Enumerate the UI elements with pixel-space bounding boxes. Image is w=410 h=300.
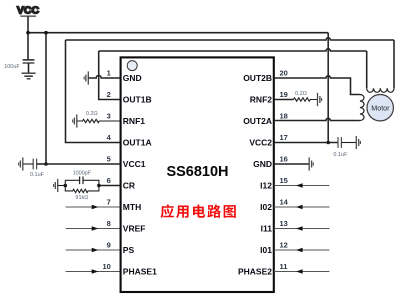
svg-text:3: 3 [107,112,111,121]
svg-text:11: 11 [280,262,288,271]
wire top VCC rail y=32.7 from VCC stem to right corner x=328.2 [28,32,328,34]
capacitor C3 1000pF top branch of CR network [65,177,99,186]
svg-text:17: 17 [280,133,288,142]
svg-text:20: 20 [280,69,288,78]
ground below C1 [22,73,36,79]
svg-text:15: 15 [280,176,288,185]
junction VCC rail at pin17 VCC2 [326,141,330,145]
inductor L1 motor left winding [360,95,364,121]
red caption: application circuit diagram (CJK glyph outlines) [161,204,236,218]
pin1 indicator circle [127,61,137,71]
ground at pin3 RNF1 circuit (pointing left) [73,114,77,127]
wire vertical x=394 from rail2 down to motor winding L2 right end [393,40,395,88]
ground at C4 (pointing right) [356,136,360,149]
wire with arrow into pin15 I12 [274,183,330,188]
wire VCC stem down from VCC bar to top rail [27,16,29,33]
wire pin20 OUT2B to motor winding L1 top, hop over VCC vertical rail [274,76,360,95]
wire vertical x=98.7 rail3 corner down to pin2 OUT1B row [99,51,120,100]
svg-text:OUT1B: OUT1B [123,95,152,105]
svg-text:Motor: Motor [371,103,390,112]
wire VCC vertical rail x=328.2 from top rail corner down to VCC2 row [327,33,329,143]
wire vertical x=65.5 rail2 corner down to pin4 OUT1A row [66,40,120,143]
resistor R3 0.2 ohm at pin19 [294,98,318,101]
IC U1 SS6810H body [121,57,274,292]
svg-text:PS: PS [123,245,135,255]
svg-text:9: 9 [107,241,111,250]
wire pin5 from junction left to capacitor C2 [37,163,46,165]
node right of CR RC network [97,184,101,188]
wire from capacitor C1 to ground [28,63,30,73]
ground at pin6 CR circuit (pointing left) [54,179,58,192]
wire with arrow into pin9 PS [66,248,120,253]
node VCC label [17,5,40,17]
svg-text:14: 14 [280,198,289,207]
svg-text:1: 1 [107,69,111,78]
svg-text:VCC2: VCC2 [249,138,272,148]
svg-text:2: 2 [107,90,111,99]
wire capacitor C2 to ground [23,163,33,165]
motor M1 circle [367,95,393,121]
wire with arrow into pin11 PHASE2 [274,269,330,274]
svg-text:OUT2A: OUT2A [243,116,272,126]
svg-text:MTH: MTH [123,202,141,212]
svg-text:19: 19 [280,90,288,99]
svg-text:12: 12 [280,241,288,250]
wire vertical x=366.7 from rail3 down to motor winding L2 left end [366,51,368,88]
svg-text:1000pF: 1000pF [73,171,92,177]
svg-text:PHASE1: PHASE1 [123,267,157,277]
wire with arrow into pin14 I02 [274,205,330,210]
svg-text:0.2Ω: 0.2Ω [295,91,307,97]
svg-text:I11: I11 [261,224,273,234]
svg-text:VCC1: VCC1 [123,159,146,169]
wire with arrow into pin7 MTH [66,205,120,210]
svg-text:PHASE2: PHASE2 [238,267,272,277]
wire rail2 y=40 from corner x=65.5 to x=394 with hop over VCC rail [66,38,395,40]
svg-text:8: 8 [107,219,111,228]
pin numbers left column [102,69,111,272]
svg-text:0.2Ω: 0.2Ω [86,111,98,117]
wire pin16 GND stub [274,163,309,165]
svg-text:91kΩ: 91kΩ [75,195,88,201]
svg-text:I01: I01 [260,245,272,255]
svg-text:GND: GND [123,73,142,83]
wire pin19 RNF2 stub [274,99,294,101]
svg-text:VCC: VCC [17,5,40,17]
svg-text:I12: I12 [260,181,272,191]
svg-text:RNF1: RNF1 [123,116,145,126]
svg-text:I02: I02 [260,202,272,212]
junction at x=46 on top rail [44,31,48,35]
wire with arrow into pin13 I11 [274,226,330,231]
pin numbers right column [280,69,289,272]
svg-text:16: 16 [280,155,288,164]
wire capacitor C4 to ground [341,142,356,144]
svg-text:6: 6 [107,176,111,185]
wire pin1 GND to ground with hop over x=98.7 [88,76,120,79]
junction at pin5 VCC1 and x=46 rail [44,162,48,166]
svg-text:0.1uF: 0.1uF [333,152,348,158]
svg-text:SS6810H: SS6810H [166,164,228,180]
svg-text:18: 18 [280,112,288,121]
wire with arrow into pin10 PHASE1 [66,269,120,274]
ground at pin19 circuit (pointing right) [318,93,322,106]
wire with arrow into pin12 I01 [274,248,330,253]
pin name labels left column [123,73,157,277]
svg-text:5: 5 [107,155,111,164]
svg-text:13: 13 [280,219,288,228]
svg-text:CR: CR [123,181,135,191]
svg-text:OUT2B: OUT2B [243,73,272,83]
wire pin5 VCC1 row from junction to IC [46,163,120,165]
wire rail3 y=51 from corner x=98.7 to x=366.7 with hop over VCC rail [99,49,367,51]
ground at pin1 GND (sideways, pointing left) [84,71,88,84]
resistor R1 0.2 ohm at pin3 [77,119,120,122]
svg-text:GND: GND [253,159,272,169]
svg-text:100uF: 100uF [4,64,20,70]
ground at C2 (pointing left) [19,157,23,170]
svg-text:OUT1A: OUT1A [123,138,152,148]
resistor R2 91k ohm bottom branch of CR network [65,186,99,193]
wire CR right node to IC pin6 [99,185,120,187]
pin name labels right column [238,73,272,277]
node left of CR RC network [64,184,68,188]
wire vertical x=28 from top rail down to capacitor C1 [27,33,29,60]
wire pin17 VCC2 from IC through junction to capacitor C4 [274,142,338,144]
svg-text:VREF: VREF [123,224,146,234]
capacitor C2 0.1uF at VCC1 [33,159,36,170]
junction at VCC stem and top rail [26,31,30,35]
wire pin18 OUT2A to motor winding L1 bottom, hop over VCC vertical rail [274,118,360,120]
inductor L2 motor top winding [367,88,394,92]
svg-text:10: 10 [102,262,110,271]
svg-text:7: 7 [107,198,111,207]
wire with arrow into pin8 VREF [66,226,120,231]
capacitor C4 0.1uF at VCC2 [338,137,341,148]
wire ground to CR left node [58,185,66,187]
ground at pin16 (pointing right) [309,157,313,170]
capacitor C1 100uF plates [23,60,35,63]
wire vertical x=46 from top rail down to VCC1 pin5 row [45,33,47,164]
svg-text:RNF2: RNF2 [250,95,272,105]
svg-text:0.1uF: 0.1uF [30,172,45,178]
